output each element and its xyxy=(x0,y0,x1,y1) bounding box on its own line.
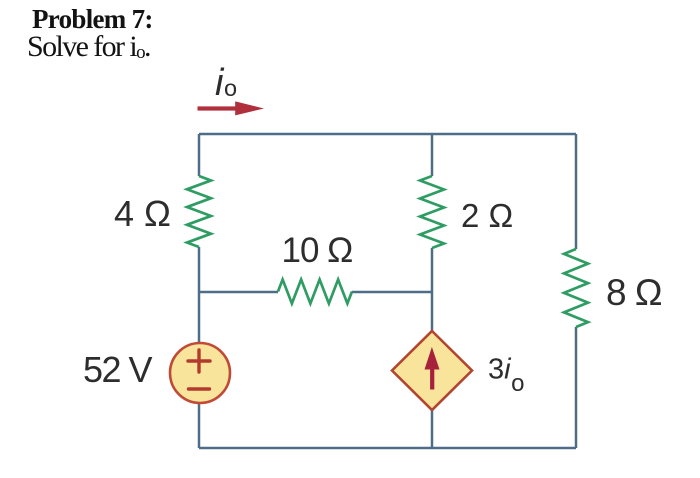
svg-text:52 V: 52 V xyxy=(83,349,153,390)
svg-text:4 Ω: 4 Ω xyxy=(114,193,171,234)
svg-text:10 Ω: 10 Ω xyxy=(282,231,353,270)
svg-text:2 Ω: 2 Ω xyxy=(461,197,513,234)
svg-text:3io: 3io xyxy=(488,354,524,398)
svg-text:io: io xyxy=(215,62,237,104)
svg-text:8 Ω: 8 Ω xyxy=(606,272,662,313)
